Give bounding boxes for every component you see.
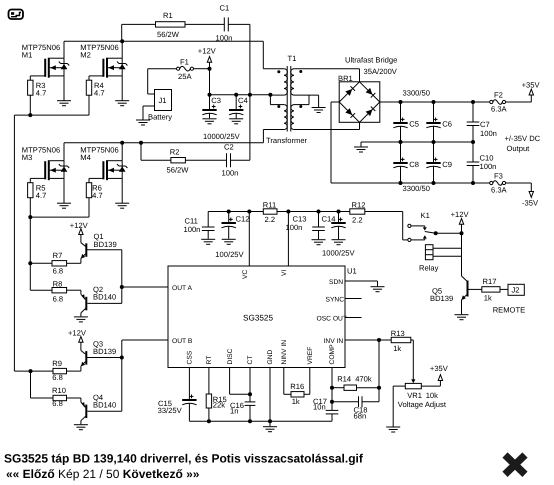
svg-text:K1: K1 — [421, 211, 430, 220]
svg-text:REMOTE: REMOTE — [493, 306, 526, 315]
svg-text:68n: 68n — [354, 411, 367, 420]
svg-text:56/2W: 56/2W — [157, 30, 180, 39]
svg-text:BD139: BD139 — [93, 347, 116, 356]
svg-text:T1: T1 — [288, 54, 297, 63]
svg-text:F1: F1 — [180, 57, 189, 66]
svg-text:6.3A: 6.3A — [491, 105, 508, 114]
svg-text:2.2: 2.2 — [352, 216, 363, 225]
svg-text:3300/50: 3300/50 — [403, 89, 430, 98]
svg-text:OSC OUT: OSC OUT — [317, 316, 347, 323]
svg-text:100n: 100n — [480, 162, 497, 171]
svg-text:+12V: +12V — [451, 210, 470, 219]
svg-text:+35V: +35V — [430, 364, 449, 373]
svg-text:CSS: CSS — [187, 350, 194, 364]
svg-text:R16: R16 — [290, 382, 304, 391]
svg-text:SDN: SDN — [329, 279, 343, 286]
svg-text:35A/200V: 35A/200V — [364, 67, 398, 76]
svg-text:C3: C3 — [211, 96, 221, 105]
svg-text:SG3525 táp BD 139,140 driverre: SG3525 táp BD 139,140 driverrel, és Poti… — [4, 451, 364, 465]
svg-text:6.8: 6.8 — [53, 295, 64, 304]
svg-text:C9: C9 — [442, 160, 452, 169]
svg-text:+35V: +35V — [522, 80, 541, 89]
svg-text:6.8: 6.8 — [53, 267, 64, 276]
svg-text:OUT A: OUT A — [172, 285, 192, 292]
svg-text:J2: J2 — [512, 286, 520, 295]
svg-text:4.7: 4.7 — [36, 191, 47, 200]
svg-text:M3: M3 — [22, 153, 33, 162]
svg-text:GND: GND — [267, 349, 274, 364]
svg-text:M2: M2 — [80, 51, 91, 60]
svg-text:R7: R7 — [53, 251, 63, 260]
svg-text:RT: RT — [206, 356, 213, 365]
svg-text:BD139: BD139 — [430, 294, 453, 303]
svg-text:BR1: BR1 — [338, 74, 353, 83]
svg-text:C5: C5 — [409, 120, 419, 129]
svg-text:C4: C4 — [238, 96, 248, 105]
svg-text:Relay: Relay — [419, 264, 439, 273]
svg-text:R9: R9 — [52, 359, 62, 368]
svg-text:1n: 1n — [230, 407, 238, 416]
svg-text:«« Előző Kép 21 / 50 Következő: «« Előző Kép 21 / 50 Következő »» — [6, 467, 200, 481]
svg-text:INV IN: INV IN — [324, 338, 344, 345]
svg-text:1k: 1k — [292, 397, 300, 406]
svg-text:470k: 470k — [355, 375, 372, 384]
svg-text:U1: U1 — [347, 267, 357, 276]
svg-text:+12V: +12V — [198, 47, 217, 56]
svg-text:SYNC: SYNC — [326, 297, 345, 304]
svg-text:22k: 22k — [213, 400, 225, 409]
svg-text:DISC: DISC — [227, 348, 234, 364]
svg-text:Transformer: Transformer — [266, 136, 308, 145]
svg-text:C12: C12 — [236, 215, 250, 224]
svg-text:6.8: 6.8 — [52, 399, 63, 408]
svg-text:VC: VC — [242, 270, 249, 279]
svg-text:VR1: VR1 — [407, 391, 422, 400]
svg-text:R14: R14 — [337, 375, 351, 384]
svg-text:2.2: 2.2 — [265, 215, 276, 224]
svg-text:3300/50: 3300/50 — [403, 184, 430, 193]
svg-text:-35V: -35V — [522, 198, 539, 207]
svg-text:COMP: COMP — [329, 344, 336, 365]
svg-text:R12: R12 — [352, 201, 366, 210]
svg-text:4.7: 4.7 — [36, 89, 47, 98]
svg-text:10000/25V: 10000/25V — [203, 132, 241, 141]
svg-text:CT: CT — [247, 356, 254, 365]
svg-text:1k: 1k — [484, 294, 492, 303]
svg-text:VI: VI — [281, 270, 288, 276]
svg-text:1k: 1k — [393, 344, 401, 353]
svg-text:Output: Output — [507, 144, 531, 153]
svg-text:C1: C1 — [220, 4, 230, 13]
svg-text:R8: R8 — [53, 279, 63, 288]
svg-text:J1: J1 — [159, 96, 167, 105]
svg-text:100n: 100n — [216, 34, 233, 43]
svg-text:6.3A: 6.3A — [491, 186, 508, 195]
svg-text:6.8: 6.8 — [52, 373, 63, 382]
svg-text:BD139: BD139 — [94, 240, 117, 249]
svg-text:NINV IN: NINV IN — [281, 340, 288, 365]
svg-text:+12V: +12V — [68, 329, 87, 338]
svg-text:56/2W: 56/2W — [167, 166, 190, 175]
svg-text:SG3525: SG3525 — [243, 314, 273, 323]
svg-text:Battery: Battery — [148, 113, 172, 122]
svg-text:25A: 25A — [178, 72, 192, 81]
svg-text:M4: M4 — [80, 153, 91, 162]
svg-text:4.7: 4.7 — [92, 191, 103, 200]
svg-text:M1: M1 — [22, 51, 33, 60]
svg-text:R10: R10 — [52, 386, 66, 395]
svg-text:C14: C14 — [322, 215, 336, 224]
svg-text:100n: 100n — [184, 225, 201, 234]
svg-text:C2: C2 — [224, 143, 234, 152]
svg-text:C8: C8 — [409, 160, 419, 169]
svg-text:F3: F3 — [494, 171, 503, 180]
svg-text:F2: F2 — [494, 91, 503, 100]
svg-text:1000/25V: 1000/25V — [322, 249, 355, 258]
svg-text:BD140: BD140 — [93, 401, 116, 410]
svg-text:100n: 100n — [222, 169, 239, 178]
svg-text:C6: C6 — [442, 120, 452, 129]
svg-text:10k: 10k — [426, 391, 438, 400]
svg-text:R1: R1 — [163, 11, 173, 20]
svg-text:VREF: VREF — [307, 347, 314, 365]
svg-text:100/25V: 100/25V — [215, 250, 244, 259]
svg-text:C7: C7 — [480, 120, 490, 129]
svg-text:100n: 100n — [480, 129, 497, 138]
svg-text:Ultrafast Bridge: Ultrafast Bridge — [345, 56, 397, 65]
svg-text:R11: R11 — [263, 201, 276, 210]
svg-text:+/-35V DC: +/-35V DC — [505, 134, 541, 143]
svg-text:+12V: +12V — [70, 221, 89, 230]
svg-text:R13: R13 — [391, 329, 405, 338]
svg-text:10n: 10n — [313, 403, 326, 412]
svg-text:R2: R2 — [170, 148, 180, 157]
svg-text:4.7: 4.7 — [94, 89, 105, 98]
svg-text:BD140: BD140 — [93, 293, 116, 302]
svg-text:33/25V: 33/25V — [158, 406, 183, 415]
svg-text:Voltage Adjust: Voltage Adjust — [398, 400, 447, 409]
svg-text:R17: R17 — [483, 277, 497, 286]
svg-text:OUT B: OUT B — [172, 338, 193, 345]
